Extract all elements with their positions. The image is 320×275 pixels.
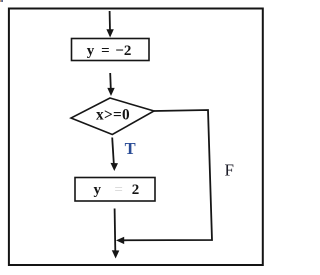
arrow diamond to box2 head — [111, 163, 119, 171]
process box 2 — [75, 178, 155, 202]
arrow box1 to diamond stem — [109, 73, 112, 89]
false branch arrowhead — [116, 237, 124, 244]
exit arrow stem — [114, 209, 117, 252]
false branch wire — [123, 110, 212, 240]
start arrowhead — [106, 29, 113, 37]
svg-text:T: T — [125, 139, 136, 158]
svg-text:y: y — [93, 182, 101, 198]
svg-text:y: y — [87, 43, 95, 59]
svg-text:x>=0: x>=0 — [96, 107, 130, 124]
process box 1 — [72, 39, 150, 61]
arrow box1 to diamond head — [107, 88, 114, 96]
svg-text:=: = — [101, 43, 110, 59]
arrow diamond to box2 stem — [112, 138, 114, 164]
corner speck — [0, 0, 1, 2]
svg-text:−2: −2 — [115, 43, 131, 59]
svg-text:F: F — [224, 161, 233, 180]
svg-text:2: 2 — [132, 182, 140, 198]
decision diamond — [71, 98, 154, 135]
exit arrowhead — [112, 250, 120, 258]
svg-text:=: = — [114, 182, 123, 198]
start arrow stem — [109, 11, 111, 31]
outer frame — [9, 9, 263, 266]
